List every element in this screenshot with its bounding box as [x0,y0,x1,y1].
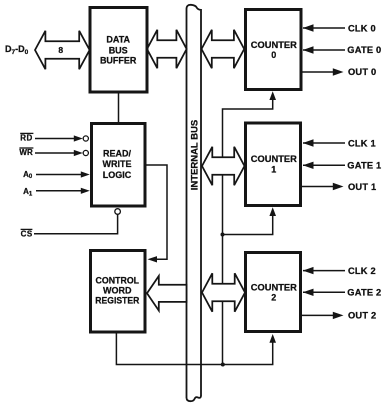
svg-text:CLK 0: CLK 0 [348,24,376,34]
svg-text:GATE 1: GATE 1 [347,161,381,171]
svg-text:WORD: WORD [103,285,132,295]
svg-text:GATE 0: GATE 0 [347,45,381,55]
svg-text:RD: RD [20,134,33,143]
svg-text:CLK 2: CLK 2 [348,266,376,276]
svg-text:1: 1 [271,164,276,174]
svg-text:OUT 2: OUT 2 [348,311,376,321]
svg-text:COUNTER: COUNTER [251,40,298,50]
svg-text:OUT 0: OUT 0 [348,67,376,77]
svg-text:READ/: READ/ [103,149,132,159]
svg-text:BUFFER: BUFFER [100,56,137,66]
svg-text:CS: CS [21,230,33,239]
svg-text:DATA: DATA [106,34,130,44]
svg-text:GATE 2: GATE 2 [347,288,381,298]
svg-text:CONTROL: CONTROL [96,276,140,286]
svg-text:WR: WR [19,148,33,157]
svg-text:COUNTER: COUNTER [251,154,298,164]
svg-text:WRITE: WRITE [103,159,132,169]
svg-text:0: 0 [271,50,276,60]
svg-text:CLK 1: CLK 1 [348,138,376,148]
svg-text:REGISTER: REGISTER [95,296,139,306]
svg-text:2: 2 [271,293,276,303]
svg-text:LOGIC: LOGIC [103,170,132,180]
svg-text:8: 8 [58,45,63,55]
svg-text:BUS: BUS [109,45,128,55]
svg-text:COUNTER: COUNTER [251,282,298,292]
svg-text:INTERNAL BUS: INTERNAL BUS [190,120,201,191]
svg-text:OUT 1: OUT 1 [348,182,376,192]
